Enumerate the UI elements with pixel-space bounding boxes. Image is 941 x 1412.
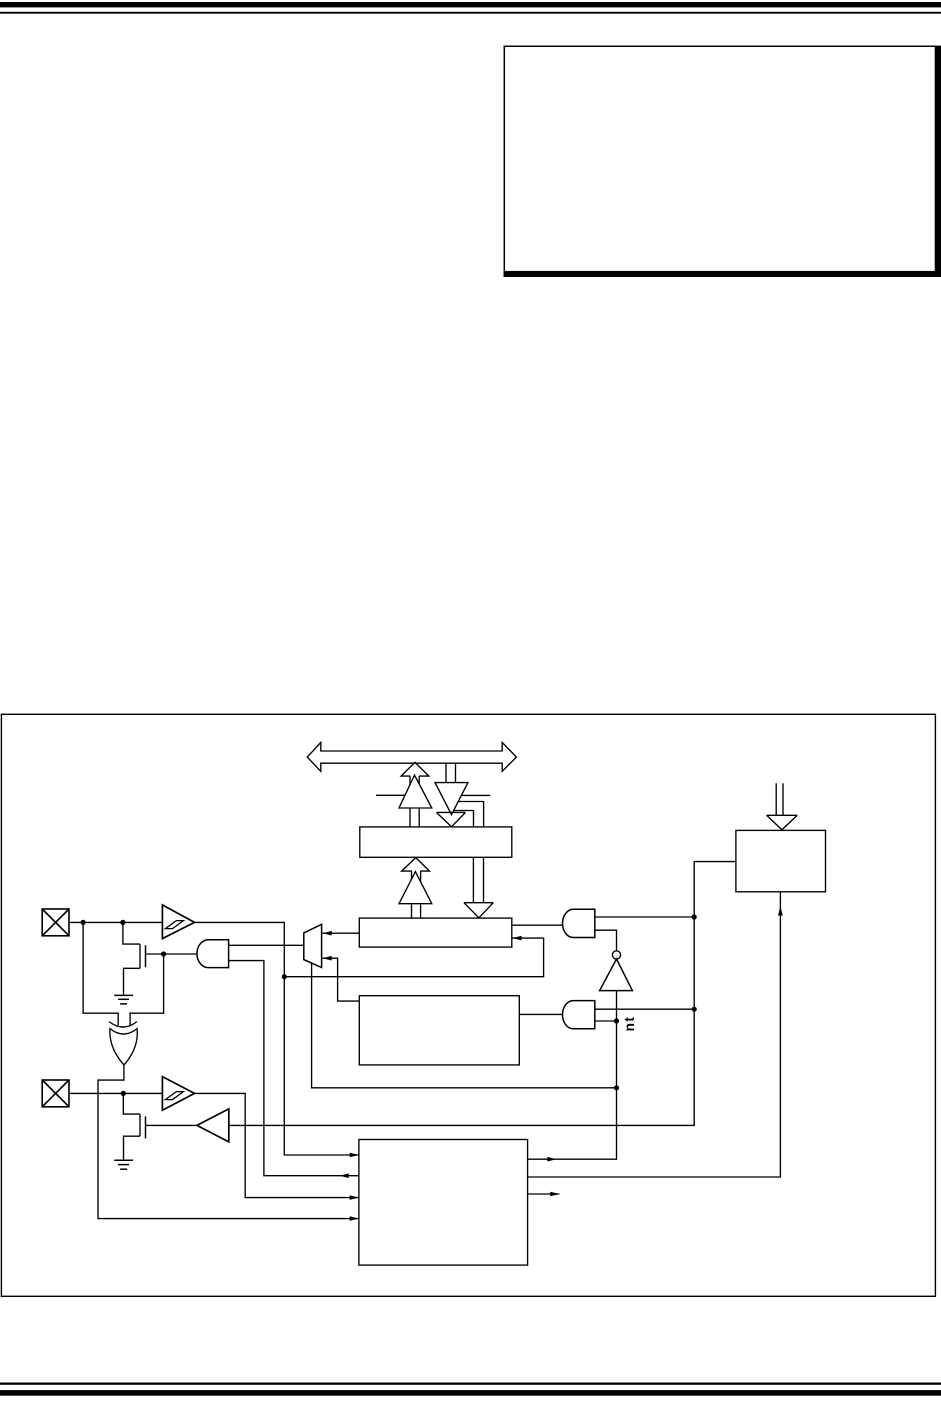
wire A2 in1 (595, 916, 694, 918)
wire T2 enable stub (461, 794, 490, 796)
RD2 hollow arrowhead to data latch (402, 858, 430, 872)
wire RD hollow stem upper (410, 776, 419, 808)
arrowhead mux in2 (323, 956, 332, 961)
block U3 (middle) (359, 996, 519, 1065)
hollow arrow into U4 top (767, 783, 798, 830)
arrowhead mux in1 (323, 931, 332, 936)
wire RD2 hollow stem (412, 871, 421, 918)
wire WR hollow stem from bus (446, 763, 456, 782)
wire U5 out2 to U4 (528, 892, 781, 1177)
ground GND2 (114, 1160, 133, 1169)
data latch U1 (360, 827, 512, 857)
wire tris latch to AND A2 (512, 924, 563, 926)
buffer T1 (RD tri-state) (376, 775, 432, 808)
pad P2 (RA6 pin) (42, 1080, 69, 1107)
schmitt buffer S2 (162, 1077, 194, 1111)
wire tris latch to mux in1 (323, 932, 360, 934)
buffer T2 (WR, inverted direction) (435, 783, 468, 815)
node A3 in1 (692, 1007, 697, 1012)
wire A1 in2 from U5 (229, 961, 359, 1176)
XOR gate X1 (pointing down) (109, 1022, 137, 1065)
wire XOR right input to gate node (130, 954, 164, 1025)
wire Q2 gate to buffer B2 (146, 1124, 197, 1126)
RD hollow arrowhead to bus (401, 762, 429, 776)
node pad1-a (81, 920, 86, 925)
wire mux select (312, 963, 617, 1087)
block U4 (oscillator, top right) (736, 830, 826, 891)
buffer B2 (points left) (197, 1109, 229, 1142)
ground GND1 (114, 995, 133, 1004)
node pad2 (121, 1091, 126, 1096)
arrowhead into U4 bottom (778, 906, 783, 915)
arrowhead into tris latch right (512, 936, 521, 941)
wire A1 in1 to mux (229, 944, 304, 946)
AND gate A1 (mirrored) (197, 940, 229, 968)
arrowhead U5 in1 (350, 1153, 359, 1158)
arrowhead U5 out1 (547, 1157, 556, 1162)
wire U4 feed vertical to buffer B2 (229, 862, 736, 1126)
footer thin rule (0, 1383, 941, 1385)
schmitt buffer S1 (162, 905, 194, 939)
node Q1 gate (161, 951, 166, 956)
node N1 (282, 974, 287, 979)
AND gate A3 (mirrored) (562, 1001, 594, 1029)
svg-text:nt: nt (622, 1016, 637, 1032)
wire S1 output to U5 (195, 922, 359, 1155)
block U5 (bottom) (359, 1140, 528, 1266)
node A3 in2 (614, 1018, 619, 1023)
wire A3 in1 (595, 1008, 694, 1010)
wire node N1 long horizontal to tris latch (284, 938, 543, 977)
wire S2 output to U5 (195, 1093, 359, 1197)
note box (shadowed) (504, 46, 941, 277)
wire U5 out1 to inverter V1 (528, 991, 617, 1160)
wire U5 out3 stub (528, 1193, 560, 1195)
header thick rule (0, 2, 941, 7)
footer thick rule (0, 1390, 941, 1396)
header thin rule (0, 12, 941, 14)
inverter V1 (bubble up) (600, 951, 633, 991)
wire U3 to A3 (519, 1013, 563, 1015)
data bus double arrow (307, 742, 516, 771)
wire XOR output to U5 (98, 1065, 359, 1219)
wire P1 left loop to XOR (83, 922, 118, 1025)
wire WR TRIS hollow channel below data latch (473, 857, 483, 902)
transistor Q2 (123, 1093, 145, 1160)
arrowhead U5 in2 (350, 1195, 359, 1200)
wire WR TRIS hollow elbow outer (458, 802, 483, 827)
wire pad P2 to schmitt S2 (69, 1092, 162, 1094)
wire RD stem to data latch (410, 808, 419, 827)
transistor Q1 (123, 922, 146, 995)
wire pad P1 to schmitt S1 (69, 921, 162, 923)
mux M1 (304, 924, 322, 967)
node pad1-b (120, 920, 125, 925)
arrowhead U5 in3 (350, 1216, 359, 1221)
junction dots (81, 914, 697, 1096)
tris latch U2 (359, 918, 512, 947)
pad P1 (RA7 pin) (42, 909, 69, 936)
AND gate A2 (mirrored) (563, 909, 595, 937)
arrowhead U5 out-left (340, 1173, 349, 1178)
buffer T3 (RD port) (399, 872, 432, 904)
WR TRIS hollow arrowhead into tris latch (464, 903, 493, 918)
node A2 in1 (692, 914, 697, 919)
wire A3 in2 stub (595, 1020, 617, 1022)
figure frame (1, 714, 935, 1296)
WR hollow arrowhead into data latch (436, 812, 465, 826)
wire Q1 gate to AND A1 (146, 953, 198, 955)
wire WR TRIS hollow elbow inner (454, 811, 474, 827)
wire mux in2 from U3 (323, 958, 360, 1001)
node select (614, 1085, 619, 1090)
wire A2 in2 to inverter N1 (595, 930, 617, 951)
arrowhead U5 out3 (550, 1192, 559, 1197)
